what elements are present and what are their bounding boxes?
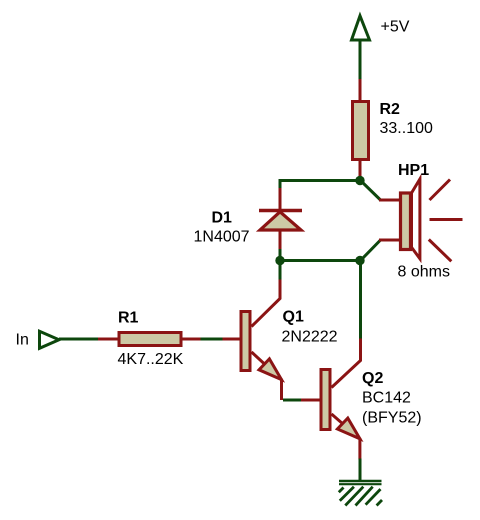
HP1 sound waves — [429, 180, 463, 262]
wire In to R1 — [59, 338, 100, 341]
svg-text:Q2: Q2 — [362, 370, 383, 387]
input port In — [40, 331, 60, 348]
power symbol +5V — [352, 16, 370, 40]
transistor Q2 — [301, 339, 361, 460]
svg-text:8 ohms: 8 ohms — [398, 264, 450, 281]
wire junction to Q2 collector — [359, 261, 362, 341]
svg-text:HP1: HP1 — [398, 162, 429, 179]
svg-text:1N4007: 1N4007 — [194, 229, 250, 246]
node junction D1/Q1/HP1 — [275, 256, 284, 265]
wire D1 to junction — [279, 249, 282, 258]
wire +5V to R2 — [359, 41, 362, 81]
wire Q1 emitter to Q2 base — [283, 399, 302, 402]
svg-text:BC142: BC142 — [362, 390, 411, 407]
svg-text:+5V: +5V — [381, 19, 410, 36]
wire middle horizontal — [280, 259, 360, 262]
svg-text:In: In — [16, 332, 29, 349]
svg-text:R1: R1 — [118, 310, 139, 327]
resistor R2 — [353, 79, 369, 178]
wire Q1 collector to junction — [279, 261, 282, 282]
wire junction to HP1 bottom — [361, 240, 381, 261]
speaker HP1 — [379, 179, 420, 259]
svg-text:R2: R2 — [380, 101, 401, 118]
svg-text:D1: D1 — [212, 210, 233, 227]
ground — [339, 481, 382, 506]
wire junction to HP1 top — [361, 181, 381, 201]
node junction HP1/Q2 — [355, 256, 364, 265]
svg-text:2N2222: 2N2222 — [282, 329, 338, 346]
node junction R2/D1/HP1 — [355, 176, 364, 185]
svg-text:(BFY52): (BFY52) — [362, 410, 422, 427]
resistor R1 — [98, 333, 201, 346]
wire R1 to Q1 base — [201, 338, 223, 341]
svg-text:33..100: 33..100 — [380, 120, 433, 137]
svg-text:Q1: Q1 — [283, 309, 304, 326]
diode D1 — [259, 188, 302, 250]
wire junction to D1 top — [280, 181, 358, 191]
wire Q2 emitter to ground — [359, 459, 362, 482]
transistor Q1 — [222, 280, 282, 401]
svg-text:4K7..22K: 4K7..22K — [118, 351, 184, 368]
